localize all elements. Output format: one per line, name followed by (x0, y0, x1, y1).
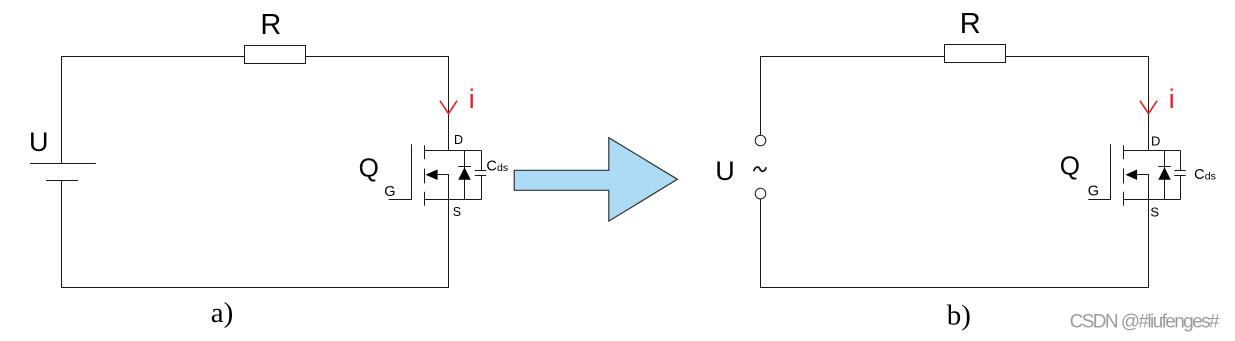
svg-text:C: C (486, 159, 496, 175)
svg-text:CSDN @#liufenges#: CSDN @#liufenges# (1070, 312, 1220, 333)
svg-text:a): a) (211, 297, 234, 329)
svg-text:R: R (260, 9, 281, 41)
svg-text:Q: Q (359, 152, 379, 182)
svg-text:D: D (454, 133, 463, 147)
svg-text:Q: Q (1060, 151, 1080, 181)
svg-text:S: S (453, 205, 461, 219)
svg-text:i: i (1169, 84, 1175, 114)
svg-text:ds: ds (497, 162, 508, 174)
svg-text:S: S (1150, 204, 1159, 219)
svg-text:i: i (469, 84, 475, 114)
svg-text:U: U (29, 127, 49, 157)
svg-text:ds: ds (1205, 171, 1216, 183)
svg-text:G: G (384, 184, 395, 200)
svg-text:R: R (960, 8, 981, 40)
svg-text:D: D (1151, 134, 1160, 149)
svg-text:G: G (1088, 183, 1099, 199)
svg-text:C: C (1194, 167, 1204, 183)
svg-text:b): b) (947, 300, 971, 332)
svg-text:U: U (715, 156, 735, 186)
